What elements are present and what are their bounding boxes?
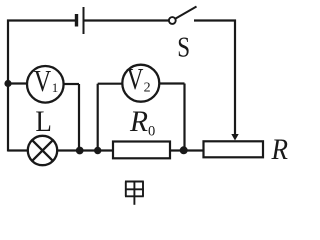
wire R0 to rheostat xyxy=(170,149,204,151)
wire V1 branch down xyxy=(78,84,80,151)
wire V2 branch down-right xyxy=(183,84,185,151)
svg-text:1: 1 xyxy=(52,80,59,95)
wire switch to top-right corner xyxy=(194,19,236,21)
wire bottom-left corner to lamp xyxy=(8,149,28,151)
node junction dot V2-bottom-left xyxy=(94,147,101,154)
wire node to V1 xyxy=(8,82,28,84)
resistor R0 box xyxy=(113,142,170,159)
switch S pivot circle xyxy=(169,17,176,24)
node junction dot V1-bottom xyxy=(76,147,84,155)
wire right vertical (to rheostat slider) xyxy=(234,20,236,135)
rheostat slider arrowhead xyxy=(231,134,238,141)
svg-text:V: V xyxy=(127,61,144,96)
svg-text:V: V xyxy=(34,63,52,98)
rheostat R box xyxy=(204,141,264,157)
label jia (caption) xyxy=(125,181,144,205)
node junction dot left (V1 tap) xyxy=(4,80,11,87)
wire battery to switch xyxy=(84,19,169,21)
node junction dot R0-right xyxy=(180,146,188,154)
wire V2 right xyxy=(159,82,184,84)
wire V1 right xyxy=(64,83,79,85)
wire lamp to R0 xyxy=(57,149,114,151)
svg-text:L: L xyxy=(35,105,52,138)
wire V2 left xyxy=(98,83,123,85)
svg-text:R: R xyxy=(271,133,288,166)
wire top-left horizontal (battery left) xyxy=(7,19,76,21)
battery long plate (positive) xyxy=(83,7,85,34)
svg-text:0: 0 xyxy=(148,124,155,140)
wire V2 branch down-left xyxy=(97,84,99,151)
switch S lever xyxy=(175,7,196,19)
voltmeter V2 xyxy=(122,65,159,102)
svg-text:2: 2 xyxy=(144,80,151,95)
battery short plate (negative) xyxy=(75,14,78,27)
svg-text:R: R xyxy=(129,105,148,138)
voltmeter V1 xyxy=(27,66,64,103)
wire left vertical xyxy=(7,20,9,152)
svg-text:S: S xyxy=(177,31,190,63)
lamp L xyxy=(28,136,57,165)
